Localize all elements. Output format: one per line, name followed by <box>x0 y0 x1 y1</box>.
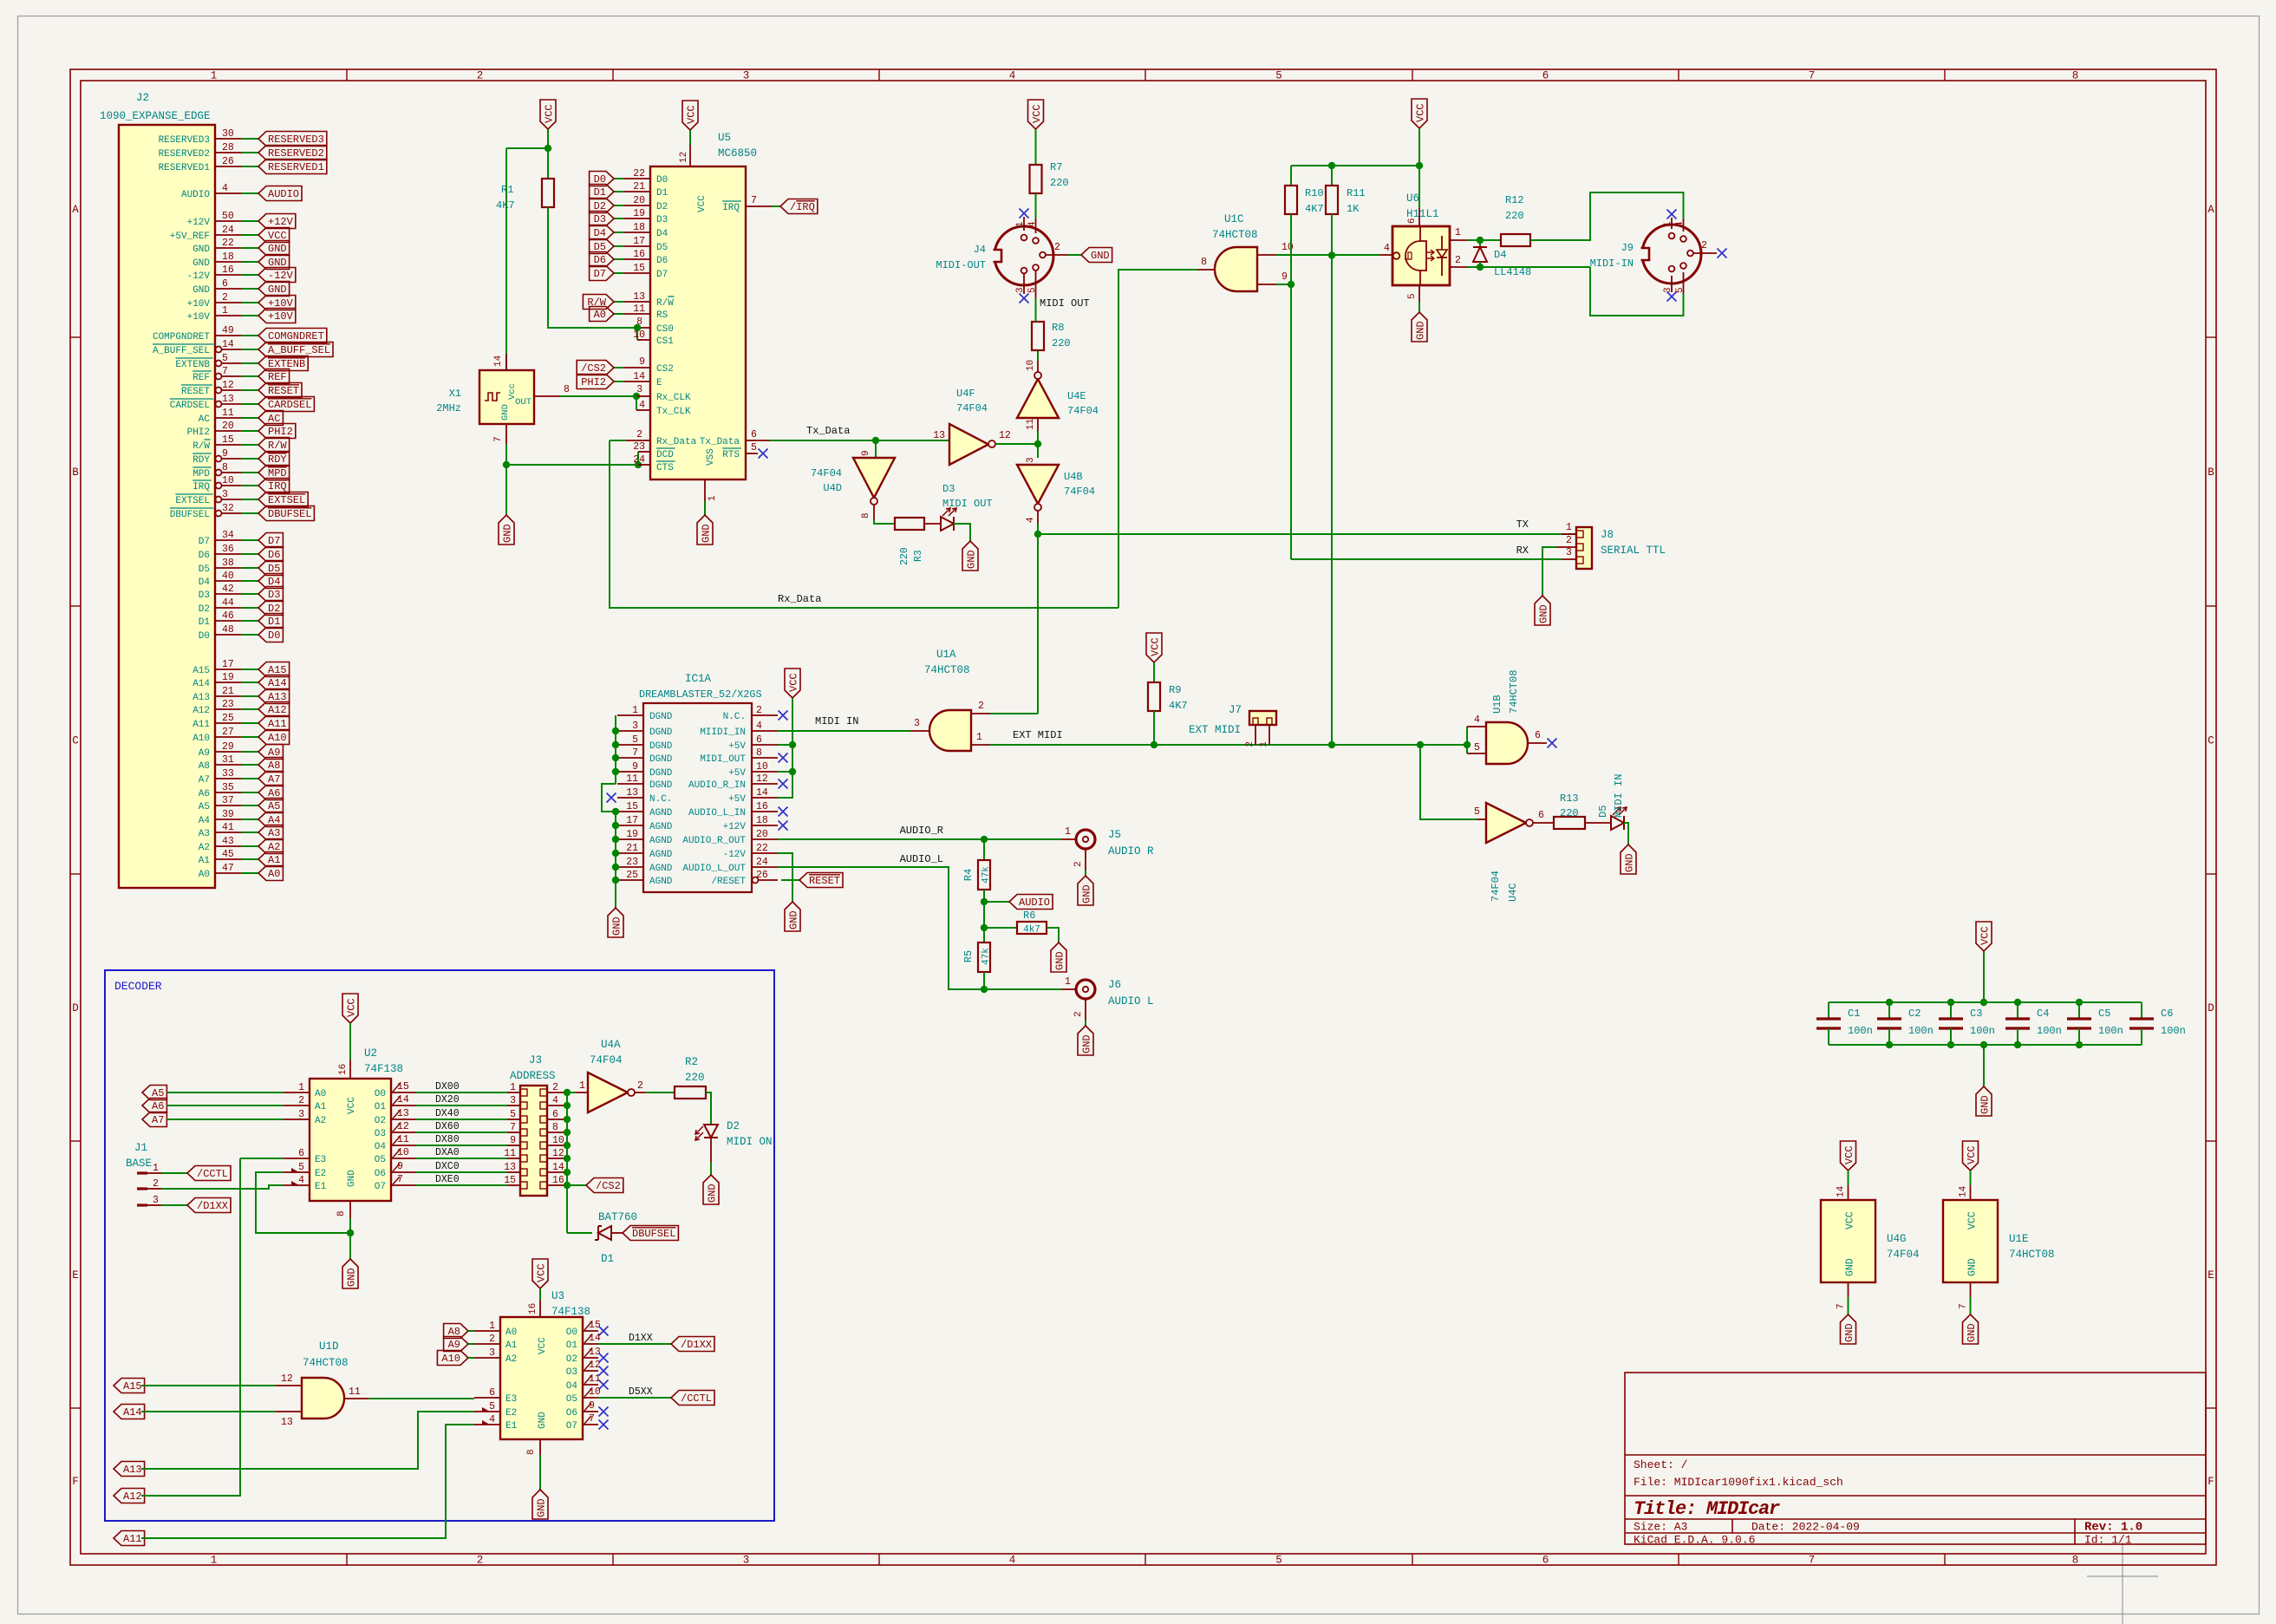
svg-text:C3: C3 <box>1970 1008 1982 1020</box>
svg-text:RDY: RDY <box>192 455 210 466</box>
svg-text:3: 3 <box>222 489 228 500</box>
svg-text:D3: D3 <box>594 213 606 225</box>
svg-text:1: 1 <box>579 1080 585 1092</box>
svg-text:Tx_Data: Tx_Data <box>700 437 740 447</box>
svg-text:3: 3 <box>1015 287 1026 293</box>
svg-text:74F04: 74F04 <box>1490 871 1502 902</box>
svg-text:A8: A8 <box>268 760 280 772</box>
svg-text:28: 28 <box>222 142 234 153</box>
svg-text:26: 26 <box>756 870 768 881</box>
svg-text:+5V: +5V <box>728 741 746 752</box>
svg-text:J7: J7 <box>1229 704 1242 716</box>
svg-text:D1: D1 <box>594 186 606 199</box>
svg-text:/CCTL: /CCTL <box>197 1168 228 1180</box>
svg-text:D7: D7 <box>199 537 210 547</box>
svg-text:AUDIO_R: AUDIO_R <box>900 825 943 837</box>
svg-text:9: 9 <box>632 761 638 773</box>
svg-text:9: 9 <box>510 1135 516 1146</box>
svg-text:35: 35 <box>222 782 234 793</box>
svg-text:12: 12 <box>397 1121 409 1132</box>
svg-text:AUDIO_R_IN: AUDIO_R_IN <box>688 780 746 791</box>
svg-text:6: 6 <box>1538 810 1544 821</box>
svg-text:D3: D3 <box>656 215 668 225</box>
svg-text:21: 21 <box>626 843 638 854</box>
svg-text:Title: MIDIcar: Title: MIDIcar <box>1634 1498 1780 1520</box>
svg-text:U4C: U4C <box>1507 883 1519 902</box>
svg-text:D2: D2 <box>727 1120 740 1132</box>
svg-text:4k7: 4k7 <box>1023 925 1040 936</box>
svg-text:+12V: +12V <box>723 822 747 832</box>
svg-text:8: 8 <box>756 747 762 759</box>
svg-text:14: 14 <box>1959 1185 1969 1197</box>
svg-text:IRQ: IRQ <box>192 482 210 492</box>
svg-text:CTS: CTS <box>656 463 674 473</box>
svg-text:2: 2 <box>477 1555 484 1567</box>
svg-text:D3: D3 <box>268 589 280 601</box>
svg-text:2: 2 <box>477 70 484 82</box>
svg-text:5: 5 <box>1275 70 1282 82</box>
svg-text:1: 1 <box>708 495 718 501</box>
svg-text:74F04: 74F04 <box>811 467 842 479</box>
svg-text:DGND: DGND <box>649 727 673 738</box>
svg-text:A8: A8 <box>199 761 210 772</box>
svg-text:A2: A2 <box>505 1354 517 1365</box>
svg-text:3: 3 <box>1663 287 1673 293</box>
svg-text:18: 18 <box>756 815 768 826</box>
svg-text:E3: E3 <box>505 1394 517 1405</box>
svg-text:GND: GND <box>966 550 978 569</box>
svg-text:2: 2 <box>1245 741 1255 747</box>
svg-text:AUDIO_R_OUT: AUDIO_R_OUT <box>682 836 746 846</box>
svg-text:15: 15 <box>589 1320 601 1331</box>
svg-text:C: C <box>2208 735 2214 747</box>
svg-text:PHI2: PHI2 <box>187 427 210 438</box>
svg-text:13: 13 <box>626 787 638 799</box>
svg-text:9: 9 <box>861 450 871 456</box>
svg-text:2: 2 <box>978 701 984 712</box>
svg-text:74HCT08: 74HCT08 <box>1212 229 1258 241</box>
svg-text:A3: A3 <box>268 827 280 839</box>
svg-text:8: 8 <box>526 1449 537 1455</box>
svg-text:11: 11 <box>626 773 638 785</box>
svg-text:RTS: RTS <box>722 450 740 460</box>
svg-text:A5: A5 <box>268 800 280 812</box>
svg-text:GND: GND <box>1843 1323 1855 1342</box>
svg-text:24: 24 <box>633 454 645 466</box>
svg-text:MIDI IN: MIDI IN <box>815 715 858 727</box>
svg-text:6: 6 <box>1407 218 1418 224</box>
svg-text:9: 9 <box>222 448 228 460</box>
svg-text:COMPGNDRET: COMPGNDRET <box>153 332 210 342</box>
svg-text:R8: R8 <box>1052 322 1064 334</box>
svg-text:5: 5 <box>510 1109 516 1120</box>
svg-text:22: 22 <box>633 168 645 179</box>
svg-text:A0: A0 <box>199 870 210 880</box>
svg-text:GND: GND <box>1967 1258 1979 1276</box>
svg-text:12: 12 <box>281 1373 293 1385</box>
svg-text:D1: D1 <box>601 1253 614 1265</box>
svg-text:74HCT08: 74HCT08 <box>2009 1249 2055 1261</box>
svg-text:DX20: DX20 <box>435 1094 460 1105</box>
svg-text:1: 1 <box>1663 221 1673 227</box>
svg-text:C4: C4 <box>2037 1008 2049 1020</box>
svg-text:27: 27 <box>222 727 234 738</box>
svg-text:D1: D1 <box>268 616 280 628</box>
svg-text:A0: A0 <box>594 309 606 321</box>
svg-text:3: 3 <box>632 721 638 732</box>
svg-text:A7: A7 <box>152 1114 164 1126</box>
svg-text:B: B <box>2208 466 2214 479</box>
svg-text:U1D: U1D <box>319 1340 339 1353</box>
svg-text:24: 24 <box>222 225 234 236</box>
svg-text:20: 20 <box>222 421 234 432</box>
svg-text:12: 12 <box>552 1148 564 1159</box>
svg-text:7: 7 <box>510 1122 516 1133</box>
svg-text:4: 4 <box>1474 714 1480 726</box>
svg-text:17: 17 <box>626 815 638 826</box>
svg-text:A11: A11 <box>268 718 287 730</box>
svg-text:4: 4 <box>298 1175 304 1186</box>
svg-text:GND: GND <box>1054 951 1066 970</box>
svg-text:U1A: U1A <box>936 649 956 661</box>
svg-text:X1: X1 <box>449 388 461 400</box>
svg-text:AGND: AGND <box>649 808 673 819</box>
svg-text:O5: O5 <box>566 1394 577 1405</box>
svg-text:RS: RS <box>656 310 668 321</box>
svg-text:D2: D2 <box>656 202 668 212</box>
svg-text:36: 36 <box>222 544 234 555</box>
svg-text:TX: TX <box>1516 519 1529 531</box>
svg-text:74F04: 74F04 <box>1067 405 1099 417</box>
svg-text:20: 20 <box>633 195 645 206</box>
svg-text:GND: GND <box>500 404 511 421</box>
svg-text:BAT760: BAT760 <box>598 1211 637 1223</box>
svg-text:1: 1 <box>632 705 638 716</box>
svg-text:C: C <box>72 735 79 747</box>
svg-text:D6: D6 <box>656 256 668 266</box>
svg-text:D0: D0 <box>656 175 668 186</box>
svg-text:D5: D5 <box>656 243 668 253</box>
svg-text:SERIAL TTL: SERIAL TTL <box>1601 545 1666 557</box>
svg-text:R13: R13 <box>1560 792 1579 805</box>
svg-text:Rx_Data: Rx_Data <box>778 593 821 605</box>
svg-text:30: 30 <box>222 128 234 140</box>
svg-text:AUDIO: AUDIO <box>1019 897 1050 909</box>
svg-text:22: 22 <box>222 238 234 249</box>
svg-text:AGND: AGND <box>649 850 673 860</box>
svg-text:A1: A1 <box>199 856 211 866</box>
svg-text:A10: A10 <box>192 734 210 744</box>
svg-text:21: 21 <box>633 181 645 192</box>
svg-text:E: E <box>72 1269 79 1282</box>
svg-text:U1C: U1C <box>1224 213 1244 225</box>
svg-text:DXC0: DXC0 <box>435 1161 460 1172</box>
svg-text:7: 7 <box>1959 1303 1969 1309</box>
svg-text:Rx_Data: Rx_Data <box>656 437 697 447</box>
svg-text:4: 4 <box>756 721 762 732</box>
svg-text:2: 2 <box>1455 255 1461 266</box>
svg-text:74F04: 74F04 <box>1887 1249 1920 1261</box>
svg-text:A0: A0 <box>505 1327 517 1338</box>
svg-text:VCC: VCC <box>346 998 358 1017</box>
svg-text:R1: R1 <box>501 184 513 196</box>
svg-text:J5: J5 <box>1108 829 1121 841</box>
svg-text:A: A <box>72 204 79 216</box>
svg-text:DXE0: DXE0 <box>435 1174 460 1185</box>
svg-text:U5: U5 <box>718 132 731 144</box>
svg-text:A15: A15 <box>123 1380 142 1392</box>
svg-text:AGND: AGND <box>649 864 673 874</box>
svg-text:DBUFSEL: DBUFSEL <box>170 510 210 520</box>
svg-text:R12: R12 <box>1505 194 1524 206</box>
svg-text:+5V_REF: +5V_REF <box>170 232 210 242</box>
svg-text:R9: R9 <box>1169 684 1181 696</box>
svg-text:5: 5 <box>222 353 228 364</box>
svg-text:40: 40 <box>222 571 234 582</box>
svg-text:E2: E2 <box>315 1169 326 1179</box>
svg-text:15: 15 <box>504 1175 516 1186</box>
svg-text:A6: A6 <box>199 789 210 799</box>
svg-text:A2: A2 <box>199 843 210 853</box>
svg-text:3: 3 <box>1026 457 1036 463</box>
svg-text:5: 5 <box>1027 287 1038 293</box>
svg-text:10: 10 <box>756 761 768 773</box>
svg-text:74F138: 74F138 <box>364 1063 403 1075</box>
svg-text:7: 7 <box>1809 70 1816 82</box>
svg-text:13: 13 <box>504 1162 516 1173</box>
svg-text:3: 3 <box>489 1347 495 1359</box>
svg-text:A1: A1 <box>315 1102 327 1112</box>
svg-text:GND: GND <box>192 285 210 296</box>
svg-text:O6: O6 <box>566 1408 577 1419</box>
svg-text:VCC: VCC <box>538 1337 548 1354</box>
svg-text:4: 4 <box>1009 1555 1016 1567</box>
svg-text:14: 14 <box>397 1094 409 1105</box>
svg-text:A1: A1 <box>268 854 280 866</box>
svg-text:D7: D7 <box>594 268 606 280</box>
svg-text:2: 2 <box>153 1178 159 1190</box>
svg-text:A14: A14 <box>123 1406 142 1419</box>
svg-text:8: 8 <box>222 462 228 473</box>
svg-text:3: 3 <box>1566 547 1572 558</box>
svg-text:D3: D3 <box>199 590 210 601</box>
svg-text:O3: O3 <box>375 1129 386 1139</box>
svg-text:RESET: RESET <box>268 385 299 397</box>
svg-text:D2: D2 <box>199 604 210 615</box>
svg-text:GND: GND <box>701 524 713 543</box>
svg-text:4: 4 <box>1027 221 1038 227</box>
svg-text:16: 16 <box>552 1175 564 1186</box>
svg-text:A12: A12 <box>123 1490 142 1503</box>
svg-text:11: 11 <box>1026 418 1036 430</box>
svg-text:18: 18 <box>222 251 234 263</box>
svg-text:PHI2: PHI2 <box>581 376 606 388</box>
svg-text:13: 13 <box>397 1108 409 1119</box>
svg-text:6: 6 <box>1542 70 1549 82</box>
svg-text:AC: AC <box>199 414 211 425</box>
svg-text:DX80: DX80 <box>435 1134 460 1145</box>
svg-text:EXTSEL: EXTSEL <box>175 496 210 506</box>
svg-text:9: 9 <box>397 1161 403 1172</box>
svg-text:CARDSEL: CARDSEL <box>170 401 210 411</box>
svg-text:100n: 100n <box>2161 1025 2186 1037</box>
svg-text:J8: J8 <box>1601 529 1614 541</box>
svg-text:44: 44 <box>222 597 234 609</box>
svg-text:A4: A4 <box>199 816 211 826</box>
svg-text:220: 220 <box>1560 807 1579 819</box>
svg-text:GND: GND <box>502 524 514 543</box>
svg-text:11: 11 <box>222 408 234 419</box>
svg-text:R4: R4 <box>962 869 975 881</box>
svg-text:45: 45 <box>222 849 234 860</box>
svg-text:C2: C2 <box>1908 1008 1921 1020</box>
svg-text:16: 16 <box>338 1064 349 1075</box>
svg-text:23: 23 <box>633 441 645 453</box>
svg-text:U3: U3 <box>551 1290 564 1302</box>
svg-text:COMGNDRET: COMGNDRET <box>268 330 324 342</box>
svg-text:D1: D1 <box>656 188 668 199</box>
svg-text:DGND: DGND <box>649 754 673 765</box>
svg-text:O4: O4 <box>566 1381 578 1392</box>
svg-text:A0: A0 <box>268 868 280 880</box>
svg-text:6: 6 <box>751 429 757 440</box>
svg-text:R10: R10 <box>1305 187 1324 199</box>
svg-text:U4F: U4F <box>956 388 975 400</box>
svg-text:A_BUFF_SEL: A_BUFF_SEL <box>268 344 330 356</box>
svg-text:Tx_CLK: Tx_CLK <box>656 407 691 417</box>
svg-text:VCC: VCC <box>544 104 556 123</box>
svg-text:A11: A11 <box>192 720 210 730</box>
svg-text:Tx_Data: Tx_Data <box>806 425 850 437</box>
svg-text:MIIDI_IN: MIIDI_IN <box>700 727 746 738</box>
svg-text:E3: E3 <box>315 1155 326 1165</box>
svg-text:U4G: U4G <box>1887 1233 1907 1245</box>
svg-text:J6: J6 <box>1108 979 1121 991</box>
svg-text:EXTSEL: EXTSEL <box>268 494 305 506</box>
svg-text:AUDIO L: AUDIO L <box>1108 995 1154 1008</box>
svg-text:13: 13 <box>933 430 945 441</box>
svg-text:47k: 47k <box>981 866 992 884</box>
svg-text:4K7: 4K7 <box>1305 203 1324 215</box>
svg-text:74F04: 74F04 <box>956 402 988 414</box>
svg-text:Sheet: /: Sheet: / <box>1634 1458 1688 1471</box>
svg-text:4: 4 <box>1009 70 1016 82</box>
svg-text:29: 29 <box>222 741 234 753</box>
svg-text:DXA0: DXA0 <box>435 1147 460 1158</box>
svg-text:31: 31 <box>222 754 234 766</box>
svg-text:1: 1 <box>153 1163 159 1174</box>
svg-text:3: 3 <box>298 1109 304 1120</box>
svg-text:1: 1 <box>1566 522 1572 533</box>
svg-text:D6: D6 <box>268 549 280 561</box>
svg-text:D5: D5 <box>199 564 210 575</box>
svg-text:RESET: RESET <box>809 875 840 887</box>
svg-text:A_BUFF_SEL: A_BUFF_SEL <box>153 346 210 356</box>
svg-text:11: 11 <box>397 1134 409 1145</box>
svg-text:A: A <box>2208 204 2214 216</box>
svg-text:CS2: CS2 <box>656 364 674 375</box>
svg-text:U1B: U1B <box>1491 695 1503 714</box>
svg-text:/D1XX: /D1XX <box>681 1339 712 1351</box>
svg-text:GND: GND <box>347 1170 357 1187</box>
svg-text:GND: GND <box>1081 884 1093 903</box>
svg-text:AUDIO: AUDIO <box>181 190 210 200</box>
svg-text:4: 4 <box>639 400 645 411</box>
svg-text:5: 5 <box>751 442 757 453</box>
svg-text:10: 10 <box>633 329 645 341</box>
svg-text:VCC: VCC <box>536 1263 548 1282</box>
svg-text:22: 22 <box>756 843 768 854</box>
svg-text:19: 19 <box>222 672 234 683</box>
svg-text:A1: A1 <box>505 1340 518 1351</box>
svg-text:3: 3 <box>914 718 920 729</box>
svg-text:11: 11 <box>633 303 645 315</box>
svg-text:VCC: VCC <box>1979 926 1992 945</box>
svg-text:6: 6 <box>489 1387 495 1399</box>
svg-text:J9: J9 <box>1621 242 1634 254</box>
svg-text:MC6850: MC6850 <box>718 147 757 160</box>
svg-text:MIDI OUT: MIDI OUT <box>942 498 993 510</box>
svg-text:R6: R6 <box>1023 910 1035 922</box>
svg-text:2: 2 <box>552 1082 558 1093</box>
svg-text:GND: GND <box>788 910 800 929</box>
svg-text:5: 5 <box>632 734 638 746</box>
svg-text:Rev: 1.0: Rev: 1.0 <box>2084 1521 2142 1535</box>
svg-text:B: B <box>72 466 79 479</box>
svg-text:2: 2 <box>1566 535 1572 546</box>
svg-text:EXT MIDI: EXT MIDI <box>1013 729 1063 741</box>
svg-text:U6: U6 <box>1406 192 1419 205</box>
svg-text:A14: A14 <box>192 679 210 689</box>
svg-text:O2: O2 <box>566 1354 577 1365</box>
svg-text:2: 2 <box>1073 861 1084 867</box>
svg-text:4: 4 <box>1026 517 1036 523</box>
svg-text:VCC: VCC <box>347 1097 357 1114</box>
svg-text:O2: O2 <box>375 1116 386 1126</box>
svg-text:DGND: DGND <box>649 780 673 791</box>
svg-text:R/W: R/W <box>192 441 210 452</box>
svg-text:GND: GND <box>1966 1323 1978 1342</box>
svg-text:DGND: DGND <box>649 712 673 722</box>
svg-text:1: 1 <box>489 1321 495 1332</box>
svg-text:REF: REF <box>192 373 210 383</box>
svg-text:O0: O0 <box>566 1327 577 1338</box>
svg-text:38: 38 <box>222 558 234 569</box>
svg-text:/CS2: /CS2 <box>596 1180 621 1192</box>
svg-text:1: 1 <box>510 1082 516 1093</box>
svg-text:E1: E1 <box>505 1421 518 1432</box>
svg-text:19: 19 <box>626 829 638 840</box>
svg-text:47k: 47k <box>981 948 992 965</box>
svg-text:14: 14 <box>589 1333 601 1344</box>
svg-text:4K7: 4K7 <box>496 199 515 212</box>
svg-text:A2: A2 <box>315 1116 326 1126</box>
svg-text:10: 10 <box>397 1147 409 1158</box>
svg-text:EXTENB: EXTENB <box>175 360 210 370</box>
svg-text:E: E <box>2208 1269 2214 1282</box>
svg-text:R7: R7 <box>1050 161 1062 173</box>
svg-text:21: 21 <box>222 686 234 697</box>
svg-text:+5V: +5V <box>728 794 746 805</box>
svg-text:4: 4 <box>1675 221 1686 227</box>
svg-text:O6: O6 <box>375 1169 386 1179</box>
svg-text:O0: O0 <box>375 1089 386 1099</box>
svg-text:GND: GND <box>1538 604 1550 623</box>
svg-text:9: 9 <box>1281 271 1288 283</box>
svg-text:+12V: +12V <box>268 216 294 228</box>
svg-text:12: 12 <box>589 1360 601 1371</box>
svg-text:39: 39 <box>222 809 234 820</box>
